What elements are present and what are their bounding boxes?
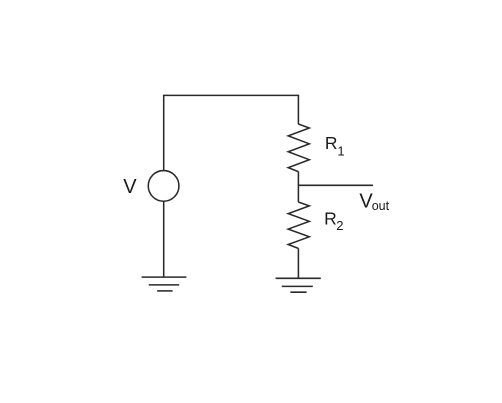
svg-text:V: V	[123, 176, 137, 198]
voltage source V1 circle	[148, 171, 179, 202]
ground (left)	[142, 277, 187, 291]
wire: R2 to right ground	[297, 248, 299, 278]
svg-text:2: 2	[336, 218, 343, 233]
wire: R1 to R2 (node)	[297, 172, 299, 203]
label Vout	[359, 191, 389, 213]
resistor R2 zigzag	[288, 202, 309, 248]
svg-text:R: R	[325, 133, 338, 153]
wire: top rail	[163, 94, 299, 96]
wire: node to Vout	[298, 184, 373, 186]
svg-text:1: 1	[337, 143, 344, 158]
wire: top rail down to R1	[297, 95, 299, 124]
svg-text:out: out	[372, 199, 390, 213]
wire: left vertical from top rail to V source	[163, 95, 165, 170]
label R1	[325, 133, 345, 158]
ground (right)	[276, 278, 321, 292]
svg-text:R: R	[324, 209, 337, 229]
resistor R1 zigzag	[288, 124, 309, 172]
wire: V source to left ground	[163, 201, 165, 277]
label R2	[324, 209, 343, 233]
